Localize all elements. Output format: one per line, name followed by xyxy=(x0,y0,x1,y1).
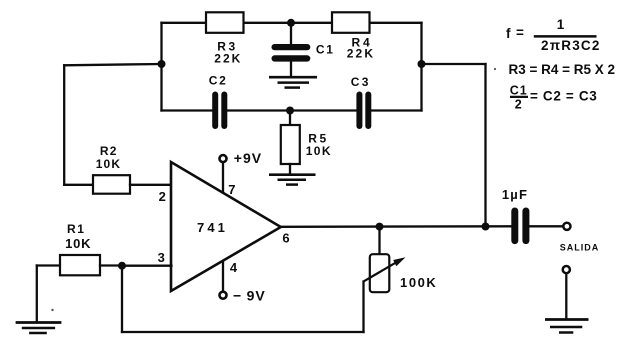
op-amp U1 741 triangle xyxy=(171,162,281,291)
svg-text:1: 1 xyxy=(557,17,565,32)
capacitor C1 bottom plate xyxy=(272,55,311,61)
wire output line from pin 6 xyxy=(281,225,512,228)
wire right drop to output line xyxy=(484,64,486,227)
ground below R1 xyxy=(16,323,62,334)
wire C1 to ground xyxy=(290,62,292,77)
svg-text:4: 4 xyxy=(230,260,238,275)
capacitor C3 left plate xyxy=(356,92,362,130)
wire left vertical of twin-T xyxy=(160,23,162,111)
wire R1 ground stem xyxy=(36,266,38,322)
svg-text:C1: C1 xyxy=(510,83,528,97)
wire right jog from twin-T junction xyxy=(422,63,486,65)
pin 4 wire xyxy=(222,262,224,291)
wire to R2 left lead xyxy=(64,184,93,186)
ground below R5 xyxy=(269,175,316,185)
wire node to op-amp pin 3 xyxy=(122,265,172,267)
resistor R4 xyxy=(332,12,370,33)
wire R5 to ground xyxy=(289,164,291,174)
wire potentiometer top stem xyxy=(378,227,380,254)
node R5 junction on bottom rail xyxy=(286,107,294,115)
wire C1 stem from top rail xyxy=(290,23,292,45)
resistor R5 xyxy=(281,125,300,164)
svg-text:7: 7 xyxy=(228,182,235,197)
wire bottom rail left segment (node B to C2) xyxy=(162,109,213,111)
wire terminal to ground xyxy=(565,274,567,319)
svg-text:22K: 22K xyxy=(347,47,376,61)
wire to R1 left lead xyxy=(37,264,60,266)
capacitor C1 top plate xyxy=(272,44,311,50)
svg-text:6: 6 xyxy=(282,231,289,246)
wire bottom rail right segment (C3 to right vertical) xyxy=(371,109,422,111)
svg-text:C1: C1 xyxy=(316,42,335,56)
svg-text:1µF: 1µF xyxy=(502,187,528,202)
svg-text:−: − xyxy=(233,288,241,304)
svg-text:+9V: +9V xyxy=(234,150,262,166)
svg-text:10K: 10K xyxy=(306,144,332,158)
capacitor 1uF right plate xyxy=(522,208,529,245)
wire R5 stem xyxy=(289,111,291,126)
pin 7 wire xyxy=(222,163,224,192)
wire cap to output terminal xyxy=(529,225,562,227)
speck near R1 xyxy=(51,309,53,311)
svg-text:9V: 9V xyxy=(247,288,266,304)
wire feedback drop from pin3 node xyxy=(121,266,123,333)
terminal output ground side xyxy=(563,266,570,273)
wire feedback rise to potentiometer wiper xyxy=(362,282,364,333)
wire bottom rail middle segment (C2 to C3) xyxy=(228,109,357,111)
resistor R3 xyxy=(206,12,244,33)
node output to coupling cap xyxy=(482,223,490,231)
terminal -9V xyxy=(220,292,227,299)
svg-text:10K: 10K xyxy=(96,157,122,171)
speck near formulas xyxy=(494,68,496,70)
wire left jog from twin-T to left drop xyxy=(64,64,161,65)
svg-text:10K: 10K xyxy=(65,236,91,251)
svg-text:100K: 100K xyxy=(400,275,437,290)
svg-text:R3 = R4 = R5 X 2: R3 = R4 = R5 X 2 xyxy=(509,62,616,77)
ground below output terminal xyxy=(545,320,589,333)
capacitor C3 right plate xyxy=(365,92,371,130)
svg-text:3: 3 xyxy=(158,250,165,265)
svg-text:2: 2 xyxy=(159,189,166,204)
svg-text:C3: C3 xyxy=(351,75,371,89)
svg-text:2: 2 xyxy=(515,98,522,112)
svg-text:R2: R2 xyxy=(100,144,118,158)
capacitor 1uF left plate xyxy=(511,208,518,245)
terminal SALIDA xyxy=(563,223,570,230)
potentiometer body 100K xyxy=(370,254,390,292)
svg-text:= C2 = C3: = C2 = C3 xyxy=(530,88,597,103)
wire feedback bottom run xyxy=(122,331,364,333)
wire right vertical of twin-T xyxy=(420,23,422,111)
resistor R1 xyxy=(60,255,100,275)
node potentiometer branch xyxy=(376,223,384,231)
svg-text:R1: R1 xyxy=(67,222,86,236)
potentiometer arrowhead xyxy=(393,257,405,266)
capacitor C2 right plate xyxy=(221,92,227,130)
ground below C1 xyxy=(269,77,317,87)
svg-text:C2: C2 xyxy=(209,74,228,88)
terminal +9V xyxy=(220,155,227,162)
svg-text:f: f xyxy=(506,26,511,41)
svg-text:SALIDA: SALIDA xyxy=(560,243,600,253)
svg-text:2πR3C2: 2πR3C2 xyxy=(541,38,601,53)
node C1 top junction xyxy=(287,19,295,27)
wire top rail of twin-T xyxy=(162,22,422,24)
svg-text:741: 741 xyxy=(197,220,228,235)
node input junction at pin 3 xyxy=(118,262,126,270)
capacitor C2 left plate xyxy=(212,92,218,130)
wire left drop to R2 level xyxy=(63,65,65,185)
node left T-junction to R2 xyxy=(158,60,166,68)
svg-text:22K: 22K xyxy=(214,51,242,65)
formula fraction bar xyxy=(534,35,597,38)
wire R1 to input node xyxy=(100,264,122,266)
node right T-junction xyxy=(418,60,426,68)
potentiometer wiper arrow xyxy=(364,261,398,281)
svg-text:=: = xyxy=(516,25,524,40)
wire R2 to op-amp pin 2 xyxy=(130,184,172,186)
formula C1/2 fraction bar xyxy=(510,96,528,98)
resistor R2 xyxy=(93,175,130,194)
